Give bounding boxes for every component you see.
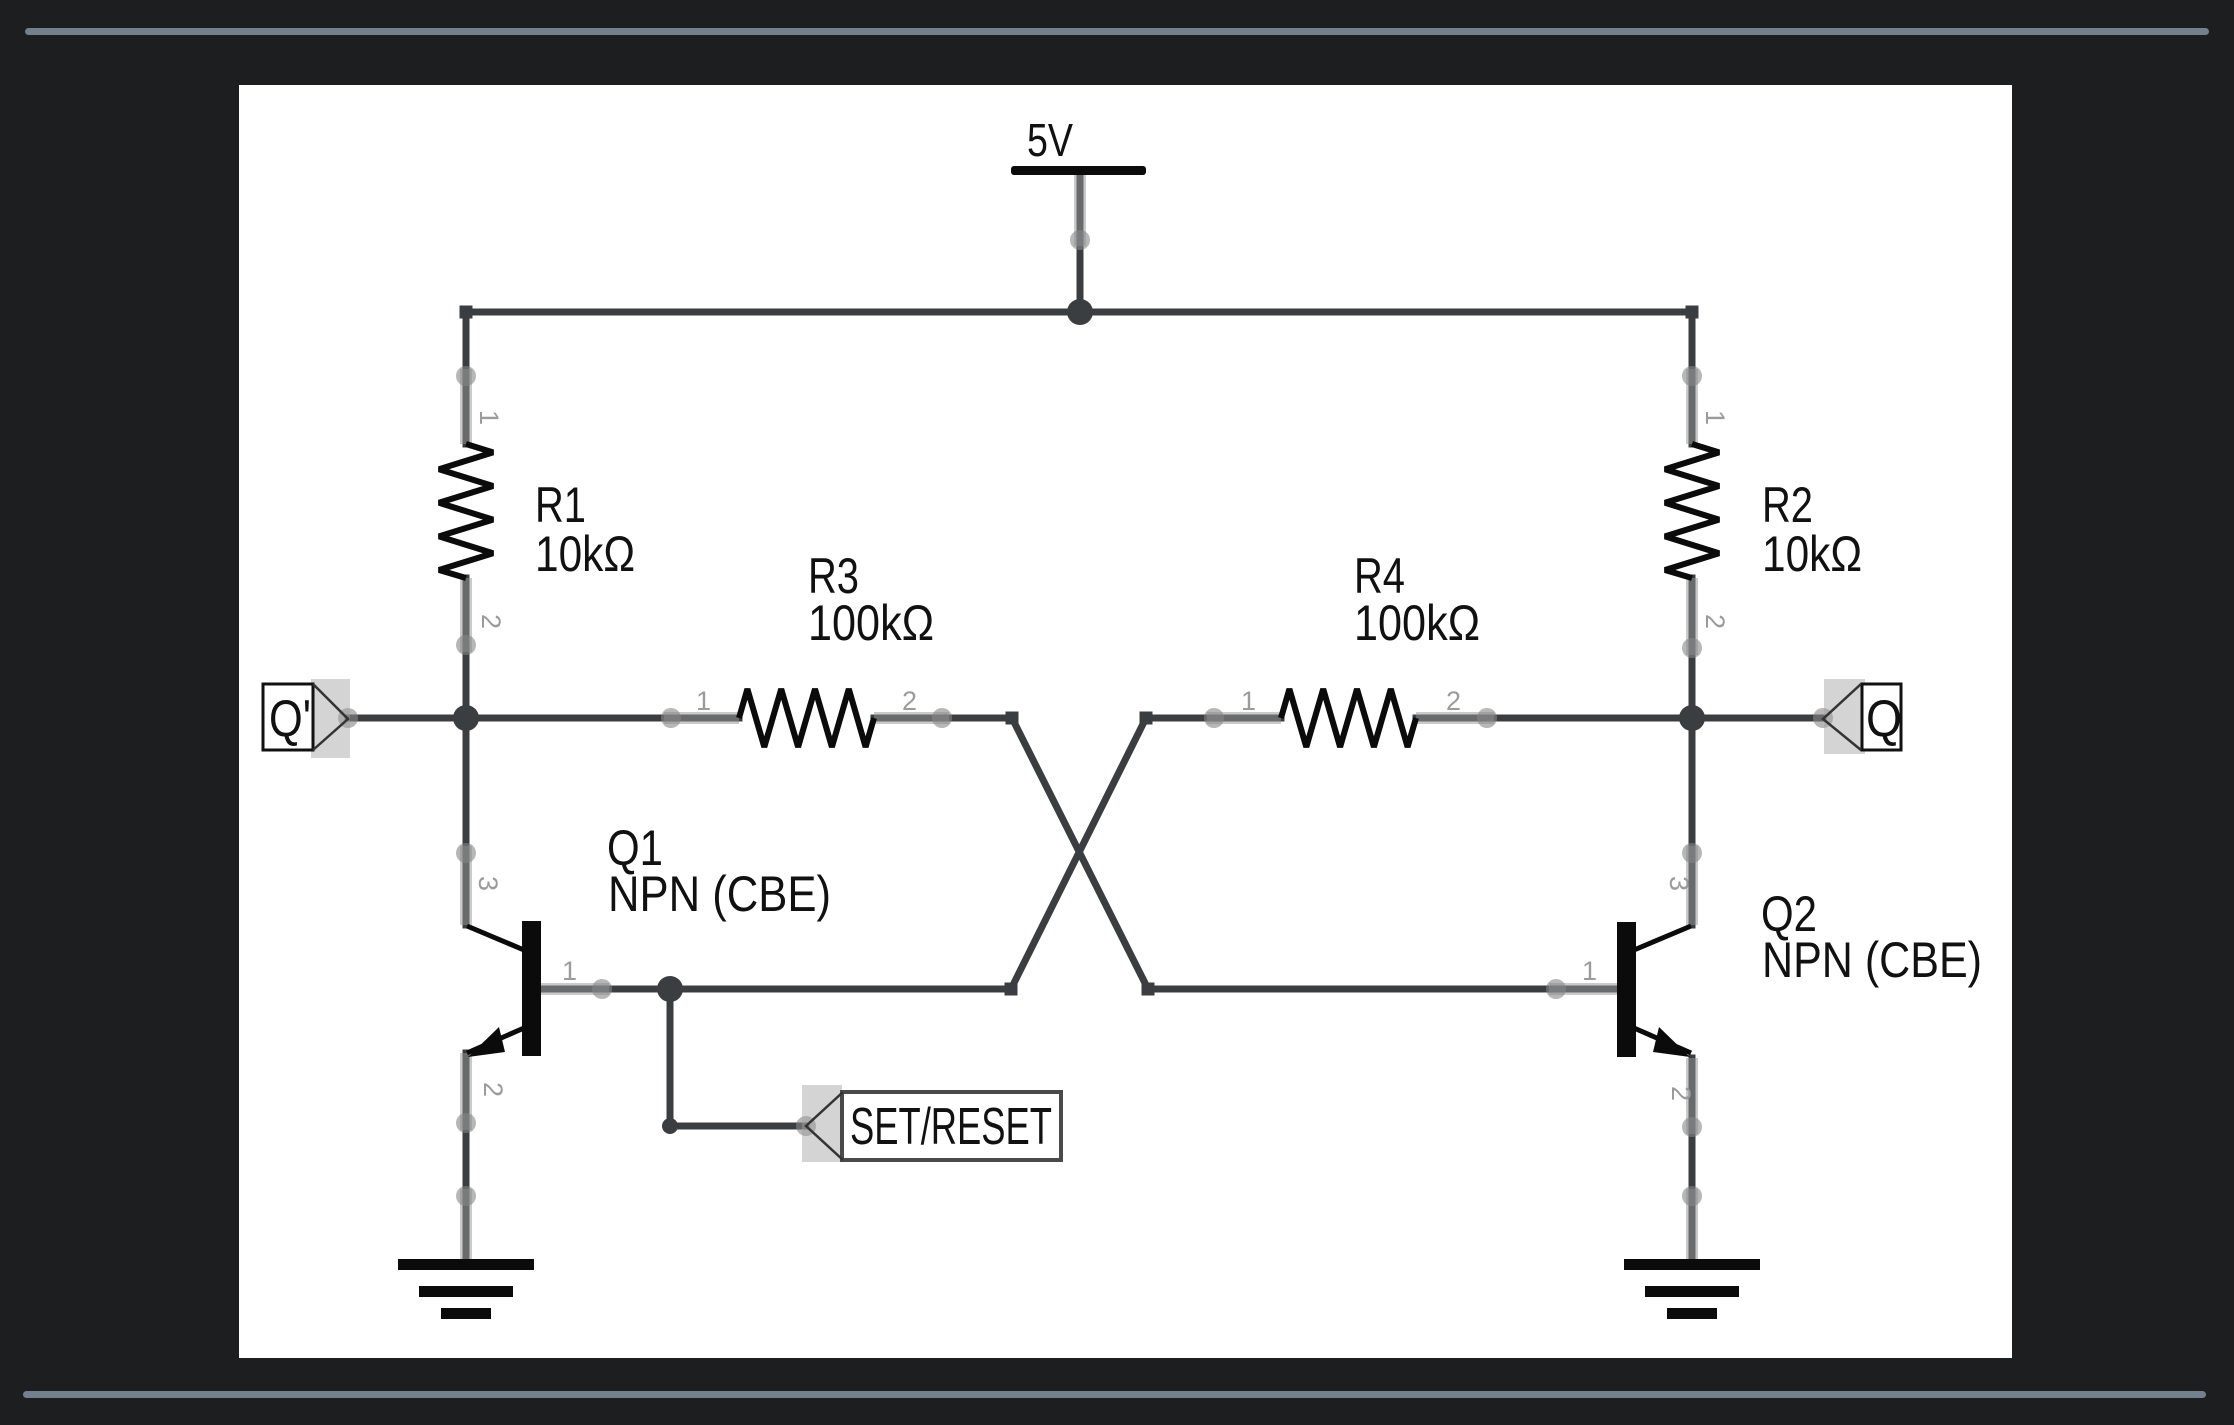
wire R1 bottom to Q' node — [463, 578, 470, 718]
lead highlight Q2 pin 3 collector — [1686, 846, 1698, 925]
power supply 5V bar — [1011, 166, 1146, 175]
base bar — [522, 921, 541, 1056]
lead highlight R4 pin 2 — [1416, 712, 1494, 724]
lead highlight R1 pin 1 — [460, 369, 472, 444]
pin dot flag Q — [1813, 708, 1833, 728]
pin dot R2-2 — [1682, 638, 1702, 658]
junction node Q — [1679, 705, 1705, 731]
corner dot SET/RESET branch — [662, 1118, 678, 1134]
svg-text:Q': Q' — [269, 690, 311, 748]
svg-text:1: 1 — [696, 686, 711, 716]
emitter lead — [467, 1028, 524, 1053]
svg-text:5V: 5V — [1027, 114, 1073, 166]
lead highlight R2 pin 2 — [1686, 578, 1698, 655]
resistor R1 zigzag — [439, 444, 493, 578]
junction 5V rail — [1067, 299, 1093, 325]
lead highlight R1 pin 2 — [460, 578, 472, 652]
wire R2 bottom to Q node — [1689, 578, 1696, 718]
svg-text:R1: R1 — [535, 477, 586, 533]
wire corner top-left — [460, 306, 473, 319]
svg-text:2: 2 — [902, 686, 917, 716]
lead highlight V1 pin — [1074, 175, 1086, 246]
pin dot flag Q' — [338, 708, 358, 728]
svg-text:R2: R2 — [1762, 477, 1813, 533]
wire Q' node to R3 — [466, 715, 739, 722]
lead highlight R4 pin 1 — [1207, 712, 1281, 724]
svg-text:3: 3 — [473, 876, 503, 891]
collector lead — [467, 926, 524, 950]
lead highlight R3 pin 1 — [664, 712, 739, 724]
wire corner cross lower-left — [1005, 983, 1018, 996]
wire cross diagonal B — [541, 718, 1146, 989]
svg-text:1: 1 — [1700, 410, 1730, 425]
wire corner cross upper-right — [1140, 712, 1153, 725]
wire R2 top branch — [1689, 312, 1696, 444]
wire corner top-right — [1686, 306, 1699, 319]
pin dot Q2-2 — [1682, 1117, 1702, 1137]
flag Q' — [263, 679, 350, 758]
lead highlight R2 pin 1 — [1686, 369, 1698, 444]
svg-text:100kΩ: 100kΩ — [1354, 595, 1480, 651]
collector lead — [1634, 926, 1691, 950]
svg-text:1: 1 — [1241, 686, 1256, 716]
schematic canvas — [239, 85, 2012, 1358]
wire 5V stub — [1077, 175, 1084, 312]
svg-text:NPN (CBE): NPN (CBE) — [608, 866, 831, 922]
lead highlight GND1 — [460, 1189, 472, 1261]
wire R3 right to X top-left corner — [874, 715, 1012, 722]
pin dot GND1 — [456, 1186, 476, 1206]
pin dot R1-1 — [456, 366, 476, 386]
junction node Q' — [453, 705, 479, 731]
svg-text:10kΩ: 10kΩ — [535, 526, 635, 582]
lead highlight Q1 pin 2 emitter — [460, 1053, 472, 1130]
pin dot GND2 — [1682, 1186, 1702, 1206]
svg-text:SET/RESET: SET/RESET — [850, 1098, 1052, 1156]
pin dot V1 — [1070, 230, 1090, 250]
lead highlight R3 pin 2 — [874, 712, 949, 724]
emitter arrow — [468, 1027, 505, 1057]
svg-text:1: 1 — [474, 410, 504, 425]
svg-text:2: 2 — [1446, 686, 1461, 716]
flag SET/RESET — [802, 1085, 1061, 1162]
pin dot Q2-3 — [1682, 843, 1702, 863]
pin dot Q1-2 — [456, 1113, 476, 1133]
lead highlight Q1 pin 1 base — [541, 983, 609, 995]
pin dot R3-2 — [932, 708, 952, 728]
pin dot R4-1 — [1204, 708, 1224, 728]
wire SET/RESET branch — [670, 989, 806, 1126]
wire Q' node down to Q1 collector — [463, 718, 470, 925]
wire corner cross lower-right — [1142, 983, 1155, 996]
svg-text:10kΩ: 10kΩ — [1762, 526, 1862, 582]
resistor R4 zigzag — [1281, 689, 1416, 747]
svg-text:1: 1 — [1582, 956, 1597, 986]
emitter arrow — [1653, 1027, 1690, 1057]
base bar — [1617, 922, 1636, 1057]
wire R1 top branch — [463, 312, 470, 444]
svg-text:2: 2 — [1666, 1086, 1696, 1101]
top border line — [25, 28, 2209, 35]
svg-text:2: 2 — [478, 1082, 508, 1097]
wire Q node to Q flag — [1692, 715, 1823, 722]
emitter lead — [1634, 1028, 1691, 1053]
bottom border line — [23, 1391, 2206, 1398]
wire R4 right to Q node — [1416, 715, 1692, 722]
svg-text:3: 3 — [1664, 876, 1694, 891]
ground left — [398, 1259, 534, 1319]
flag Q — [1823, 679, 1902, 754]
svg-text:2: 2 — [476, 614, 506, 629]
pin dot R2-1 — [1682, 366, 1702, 386]
wire cross diagonal A — [1012, 718, 1617, 989]
wire Q1 emitter to ground — [463, 1053, 470, 1261]
transistor Q1 — [467, 921, 541, 1057]
wire Q' flag to node — [348, 715, 466, 722]
pin dot flag SET/RESET — [796, 1116, 816, 1136]
resistor R3 zigzag — [739, 689, 874, 747]
wire corner cross upper-left — [1006, 712, 1019, 725]
transistor Q2 — [1617, 922, 1691, 1057]
junction Q1 base node — [657, 976, 683, 1002]
lead highlight Q2 pin 2 emitter — [1686, 1058, 1698, 1134]
wire top rail — [466, 309, 1692, 316]
svg-text:2: 2 — [1700, 614, 1730, 629]
svg-text:Q: Q — [1866, 690, 1902, 748]
lead highlight Q1 pin 3 collector — [460, 846, 472, 925]
pin dot R3-1 — [661, 708, 681, 728]
pin dot Q1-3 — [456, 843, 476, 863]
wire Q2 emitter to ground — [1689, 1058, 1696, 1261]
svg-text:100kΩ: 100kΩ — [808, 595, 934, 651]
pin dot Q2-1 — [1546, 979, 1566, 999]
lead highlight Q2 pin 1 base — [1549, 983, 1617, 995]
pin dot Q1-1 — [592, 979, 612, 999]
svg-text:1: 1 — [562, 956, 577, 986]
resistor R2 zigzag — [1665, 444, 1719, 578]
pin dot R4-2 — [1477, 708, 1497, 728]
lead highlight GND2 — [1686, 1189, 1698, 1261]
wire R4 left — [1146, 715, 1281, 722]
pin dot R1-2 — [456, 635, 476, 655]
svg-text:NPN (CBE): NPN (CBE) — [1762, 932, 1982, 988]
ground right — [1624, 1259, 1760, 1319]
wire Q node down to Q2 collector — [1689, 718, 1696, 925]
